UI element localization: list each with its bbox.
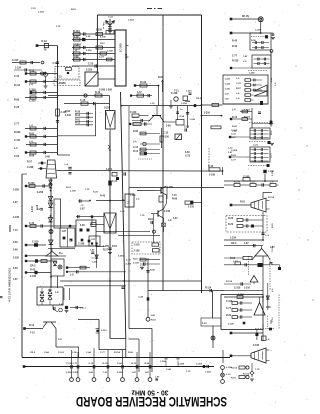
svg-text:C-44: C-44 bbox=[138, 296, 144, 299]
svg-text:7-15: 7-15 bbox=[140, 215, 145, 217]
svg-text:L-12: L-12 bbox=[228, 148, 233, 150]
svg-text:C-208: C-208 bbox=[255, 30, 262, 32]
svg-text:CR-2: CR-2 bbox=[231, 243, 237, 245]
svg-text:R-81: R-81 bbox=[240, 202, 246, 204]
svg-text:C-23: C-23 bbox=[250, 182, 256, 184]
svg-text:2-250: 2-250 bbox=[126, 264, 132, 266]
svg-text:C-15: C-15 bbox=[112, 181, 118, 183]
svg-text:C-23: C-23 bbox=[88, 63, 94, 66]
svg-text:1-87: 1-87 bbox=[90, 250, 95, 252]
svg-text:R-114: R-114 bbox=[14, 84, 21, 87]
svg-text:C-23: C-23 bbox=[14, 107, 20, 109]
svg-text:L-4: L-4 bbox=[73, 50, 77, 53]
svg-text:R-29: R-29 bbox=[226, 315, 232, 317]
svg-text:C-77: C-77 bbox=[126, 260, 132, 262]
svg-text:1-234: 1-234 bbox=[106, 168, 113, 171]
svg-text:1-310: 1-310 bbox=[65, 115, 72, 117]
svg-text:1-234: 1-234 bbox=[225, 78, 231, 81]
svg-text:C-56: C-56 bbox=[72, 352, 78, 354]
svg-text:R-114: R-114 bbox=[114, 351, 121, 354]
svg-text:R-12: R-12 bbox=[208, 165, 214, 168]
svg-text:C-15: C-15 bbox=[80, 99, 86, 102]
svg-text:C-77: C-77 bbox=[231, 160, 237, 162]
svg-text:1-310: 1-310 bbox=[186, 91, 192, 93]
svg-text:R-114: R-114 bbox=[268, 196, 275, 199]
svg-text:3-66: 3-66 bbox=[45, 156, 50, 159]
svg-text:1-87: 1-87 bbox=[13, 279, 18, 281]
svg-text:C-310: C-310 bbox=[32, 241, 39, 244]
svg-text:7-15: 7-15 bbox=[232, 131, 237, 133]
svg-text:7-15: 7-15 bbox=[172, 195, 177, 197]
svg-text:C-15: C-15 bbox=[231, 134, 237, 136]
svg-text:1-87: 1-87 bbox=[132, 372, 137, 374]
svg-text:2-250: 2-250 bbox=[13, 190, 20, 192]
svg-text:C-208: C-208 bbox=[37, 192, 44, 194]
svg-text:2-108: 2-108 bbox=[272, 170, 274, 176]
svg-text:3-66: 3-66 bbox=[80, 225, 85, 227]
svg-text:R-230: R-230 bbox=[14, 132, 21, 134]
svg-text:C-310: C-310 bbox=[12, 60, 19, 62]
svg-text:C-77: C-77 bbox=[103, 23, 109, 26]
svg-text:1-10: 1-10 bbox=[150, 103, 155, 105]
svg-text:L-12: L-12 bbox=[233, 261, 238, 263]
svg-text:7-11: 7-11 bbox=[174, 90, 179, 93]
svg-text:R-96: R-96 bbox=[133, 131, 139, 133]
svg-text:R-43: R-43 bbox=[30, 269, 36, 272]
svg-text:C-101: C-101 bbox=[272, 245, 274, 252]
svg-text:R-114: R-114 bbox=[243, 373, 250, 376]
svg-text:R-96: R-96 bbox=[128, 352, 134, 354]
svg-text:R-12: R-12 bbox=[132, 363, 138, 365]
svg-text:R-114: R-114 bbox=[205, 287, 212, 290]
svg-text:3-66: 3-66 bbox=[86, 36, 91, 38]
svg-text:R-96: R-96 bbox=[29, 155, 35, 158]
svg-text:R-81: R-81 bbox=[231, 378, 237, 380]
svg-text:1-234: 1-234 bbox=[181, 102, 187, 105]
svg-text:1-234: 1-234 bbox=[15, 67, 22, 70]
svg-text:2-250: 2-250 bbox=[86, 50, 92, 52]
svg-text:R-29: R-29 bbox=[93, 192, 99, 194]
svg-text:C-310: C-310 bbox=[234, 288, 241, 290]
svg-text:R-230: R-230 bbox=[232, 61, 239, 63]
svg-text:R-43: R-43 bbox=[232, 125, 238, 128]
svg-text:C-23: C-23 bbox=[37, 204, 39, 210]
svg-text:R-29: R-29 bbox=[228, 218, 234, 220]
svg-text:R-81: R-81 bbox=[133, 259, 139, 261]
svg-text:R-81: R-81 bbox=[29, 133, 35, 136]
svg-text:3-66: 3-66 bbox=[166, 126, 171, 128]
svg-text:C-101: C-101 bbox=[14, 140, 21, 142]
svg-text:2-108: 2-108 bbox=[134, 251, 141, 253]
svg-text:C-15: C-15 bbox=[14, 76, 20, 78]
svg-text:C-208: C-208 bbox=[178, 364, 185, 366]
svg-text:2-108: 2-108 bbox=[209, 175, 216, 177]
svg-text:R-114: R-114 bbox=[231, 367, 238, 370]
svg-text:1-87: 1-87 bbox=[13, 202, 18, 204]
svg-text:C-310: C-310 bbox=[29, 89, 36, 92]
svg-text:2-108: 2-108 bbox=[100, 37, 106, 39]
svg-text:R-96: R-96 bbox=[150, 270, 156, 272]
svg-text:R-114: R-114 bbox=[226, 280, 233, 283]
svg-text:R-12: R-12 bbox=[75, 115, 81, 117]
svg-text:R-29: R-29 bbox=[228, 224, 234, 226]
svg-text:C-15: C-15 bbox=[272, 316, 274, 322]
svg-text:R-43: R-43 bbox=[232, 40, 238, 43]
svg-text:1-234: 1-234 bbox=[38, 11, 44, 14]
svg-text:C-77: C-77 bbox=[232, 56, 238, 58]
svg-text:2-250: 2-250 bbox=[73, 372, 79, 374]
svg-text:2-108: 2-108 bbox=[107, 51, 113, 53]
svg-text:C-101: C-101 bbox=[58, 352, 65, 354]
svg-text:1-234: 1-234 bbox=[225, 83, 231, 86]
svg-text:1-310: 1-310 bbox=[130, 195, 136, 197]
svg-text:C-77: C-77 bbox=[100, 352, 106, 354]
svg-text:R-114: R-114 bbox=[244, 116, 251, 119]
svg-text:1-310: 1-310 bbox=[244, 288, 251, 290]
svg-text:3-66: 3-66 bbox=[266, 307, 271, 309]
svg-text:2-250: 2-250 bbox=[204, 113, 211, 115]
svg-text:C-77: C-77 bbox=[14, 124, 20, 126]
svg-text:1-234: 1-234 bbox=[75, 43, 81, 46]
svg-text:2-108: 2-108 bbox=[30, 276, 37, 278]
svg-text:1-234: 1-234 bbox=[31, 205, 34, 212]
svg-text:R-114: R-114 bbox=[140, 81, 147, 84]
svg-text:7-15: 7-15 bbox=[30, 333, 35, 335]
svg-text:1-87: 1-87 bbox=[59, 304, 64, 306]
svg-text:R-43: R-43 bbox=[100, 195, 106, 198]
svg-text:R-29: R-29 bbox=[73, 36, 79, 39]
svg-text:R-96: R-96 bbox=[73, 56, 79, 59]
svg-text:3-66: 3-66 bbox=[13, 250, 18, 252]
svg-text:C-77: C-77 bbox=[271, 152, 273, 158]
svg-text:CR-2: CR-2 bbox=[30, 266, 36, 268]
svg-text:CR-2: CR-2 bbox=[30, 352, 36, 354]
svg-text:C-44: C-44 bbox=[44, 351, 50, 354]
svg-text:2-108: 2-108 bbox=[70, 191, 76, 193]
svg-text:C-44: C-44 bbox=[86, 351, 92, 354]
svg-text:R-43: R-43 bbox=[232, 45, 238, 48]
svg-text:R-12: R-12 bbox=[29, 325, 35, 327]
svg-text:1-310: 1-310 bbox=[188, 207, 195, 209]
svg-text:7-15: 7-15 bbox=[56, 26, 61, 28]
svg-text:L-12: L-12 bbox=[226, 374, 231, 376]
svg-text:C-56: C-56 bbox=[184, 127, 190, 129]
svg-text:1-87: 1-87 bbox=[173, 218, 178, 220]
svg-text:R-96: R-96 bbox=[14, 100, 20, 102]
svg-text:R-81: R-81 bbox=[71, 9, 77, 11]
svg-text:3-66: 3-66 bbox=[13, 242, 18, 244]
svg-text:2-108: 2-108 bbox=[253, 345, 260, 347]
svg-text:7-15: 7-15 bbox=[186, 371, 191, 373]
svg-text:R-12: R-12 bbox=[66, 187, 72, 189]
svg-text:C-77: C-77 bbox=[226, 308, 232, 310]
svg-text:2-250: 2-250 bbox=[167, 187, 174, 189]
svg-text:2-108: 2-108 bbox=[133, 263, 139, 265]
svg-text:7-15: 7-15 bbox=[103, 372, 108, 374]
svg-text:R-57: R-57 bbox=[271, 129, 273, 135]
svg-text:R-29: R-29 bbox=[75, 111, 81, 113]
svg-text:2-108: 2-108 bbox=[226, 367, 232, 369]
svg-text:1-xx: 1-xx bbox=[202, 323, 207, 325]
svg-text:R-230: R-230 bbox=[234, 182, 241, 184]
svg-text:2-108: 2-108 bbox=[13, 217, 20, 219]
svg-text:2-250: 2-250 bbox=[249, 73, 255, 75]
svg-text:C-23: C-23 bbox=[108, 17, 114, 19]
svg-text:1-87: 1-87 bbox=[62, 231, 67, 233]
svg-text:2-250: 2-250 bbox=[104, 107, 111, 110]
svg-text:R-230: R-230 bbox=[28, 182, 35, 185]
svg-text:R-114: R-114 bbox=[73, 30, 80, 33]
svg-text:1-234: 1-234 bbox=[190, 118, 196, 121]
svg-text:R-57: R-57 bbox=[27, 162, 33, 164]
svg-text:C-23: C-23 bbox=[99, 57, 105, 59]
svg-text:R-12: R-12 bbox=[95, 91, 101, 94]
svg-text:C-77: C-77 bbox=[73, 363, 79, 365]
svg-text:30 - 50 MHz: 30 - 50 MHz bbox=[131, 389, 168, 398]
svg-text:1-87: 1-87 bbox=[228, 152, 233, 154]
svg-text:1-87: 1-87 bbox=[145, 372, 150, 374]
svg-text:2-250: 2-250 bbox=[86, 69, 93, 72]
svg-text:1-47: 1-47 bbox=[137, 91, 142, 94]
svg-text:R-96: R-96 bbox=[65, 111, 71, 113]
svg-text:1-310: 1-310 bbox=[134, 245, 141, 247]
svg-text:R-12: R-12 bbox=[133, 151, 139, 153]
svg-text:C-23: C-23 bbox=[185, 156, 191, 158]
svg-text:C-208: C-208 bbox=[27, 167, 34, 169]
svg-text:R-81: R-81 bbox=[148, 219, 154, 221]
svg-text:C-15: C-15 bbox=[163, 132, 169, 135]
svg-text:2-108: 2-108 bbox=[164, 211, 171, 213]
svg-text:1-23456: 1-23456 bbox=[57, 82, 67, 85]
svg-text:1-234: 1-234 bbox=[92, 261, 98, 264]
svg-text:R-81: R-81 bbox=[151, 320, 157, 322]
svg-text:C-208: C-208 bbox=[78, 244, 85, 246]
svg-text:C-15: C-15 bbox=[31, 8, 37, 10]
svg-text:7-15: 7-15 bbox=[57, 77, 62, 79]
svg-text:3-66: 3-66 bbox=[151, 315, 156, 317]
svg-text:- x -: - x - bbox=[80, 204, 84, 207]
svg-text:2-250: 2-250 bbox=[117, 372, 123, 374]
svg-text:2-250: 2-250 bbox=[118, 256, 124, 258]
svg-text:1-234: 1-234 bbox=[244, 109, 250, 112]
svg-text:C-15: C-15 bbox=[236, 83, 242, 85]
svg-text:R-96: R-96 bbox=[145, 363, 151, 365]
svg-text:7-15: 7-15 bbox=[13, 230, 18, 232]
svg-text:7-15: 7-15 bbox=[85, 189, 90, 191]
svg-text:2-250: 2-250 bbox=[13, 258, 20, 260]
svg-text:3-66: 3-66 bbox=[126, 53, 128, 58]
svg-text:R-114: R-114 bbox=[132, 116, 139, 119]
svg-text:R-57: R-57 bbox=[236, 88, 242, 90]
svg-text:4-72 2 P.P. 64B81102A21: 4-72 2 P.P. 64B81102A21 bbox=[8, 267, 12, 302]
svg-text:2-295 1-305: 2-295 1-305 bbox=[99, 89, 113, 92]
svg-text:R-96: R-96 bbox=[172, 199, 178, 201]
svg-text:2-250: 2-250 bbox=[163, 137, 170, 139]
svg-text:C-44: C-44 bbox=[117, 362, 123, 365]
svg-text:R-81: R-81 bbox=[75, 119, 81, 121]
svg-text:1-234: 1-234 bbox=[160, 360, 166, 363]
svg-text:CR-2: CR-2 bbox=[196, 98, 202, 100]
svg-text:1-87: 1-87 bbox=[91, 239, 96, 241]
svg-text:3-66: 3-66 bbox=[13, 268, 18, 270]
svg-text:C-15: C-15 bbox=[89, 363, 95, 365]
svg-text:1-87: 1-87 bbox=[244, 243, 249, 245]
svg-text:C-310: C-310 bbox=[29, 100, 36, 103]
svg-text:7-15: 7-15 bbox=[255, 369, 260, 371]
svg-text:Yb: Yb bbox=[44, 49, 48, 52]
svg-text:1-87: 1-87 bbox=[80, 209, 85, 211]
svg-text:C-56: C-56 bbox=[14, 156, 20, 158]
svg-text:R-12: R-12 bbox=[42, 40, 48, 43]
svg-text:3-66: 3-66 bbox=[89, 372, 94, 374]
svg-text:C-44: C-44 bbox=[166, 368, 172, 371]
svg-text:C-208: C-208 bbox=[196, 364, 203, 366]
svg-text:1-87: 1-87 bbox=[243, 56, 248, 58]
svg-text:1-310: 1-310 bbox=[101, 330, 107, 332]
svg-text:2-250: 2-250 bbox=[96, 30, 103, 32]
svg-text:1C-305: 1C-305 bbox=[119, 43, 123, 52]
svg-text:1-310: 1-310 bbox=[225, 89, 231, 91]
svg-text:R-12: R-12 bbox=[75, 123, 81, 125]
svg-text:R-96: R-96 bbox=[251, 40, 257, 42]
svg-text:C-15: C-15 bbox=[133, 147, 139, 149]
svg-text:3-66: 3-66 bbox=[185, 152, 190, 154]
svg-text:L-12: L-12 bbox=[120, 211, 125, 213]
svg-text:R-96: R-96 bbox=[158, 77, 164, 79]
svg-text:R-57: R-57 bbox=[103, 250, 109, 252]
svg-text:R-81: R-81 bbox=[112, 246, 118, 248]
svg-text:1-234: 1-234 bbox=[205, 371, 211, 374]
svg-text:C-208: C-208 bbox=[171, 93, 178, 95]
svg-text:1-234: 1-234 bbox=[128, 19, 134, 22]
svg-text:C-44: C-44 bbox=[29, 222, 35, 225]
svg-text:R-57: R-57 bbox=[100, 43, 106, 45]
svg-text:C-23: C-23 bbox=[253, 145, 259, 147]
svg-text:C-44: C-44 bbox=[53, 62, 59, 65]
svg-text:1-234: 1-234 bbox=[230, 236, 237, 239]
svg-text:R-81: R-81 bbox=[272, 222, 274, 228]
svg-text:2-250: 2-250 bbox=[66, 372, 72, 374]
svg-text:2-108: 2-108 bbox=[228, 324, 234, 326]
svg-text:R-114: R-114 bbox=[103, 362, 110, 365]
